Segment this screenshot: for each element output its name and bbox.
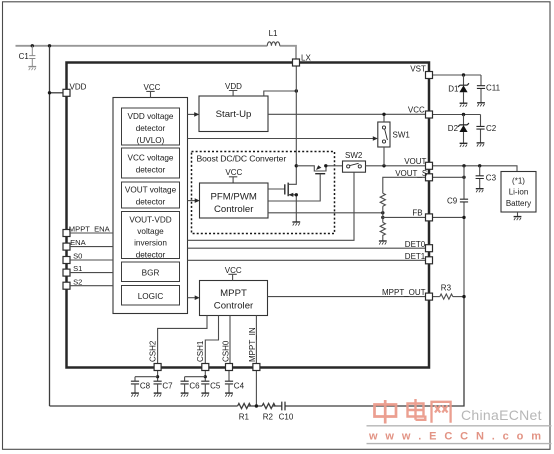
wire bottom bus mid segments <box>249 297 464 406</box>
VDD power tap (Start-Up) <box>225 82 242 96</box>
pin S1 <box>63 269 70 276</box>
inductor L1 <box>267 42 279 46</box>
svg-text:C4: C4 <box>234 382 245 391</box>
wire MPPT_IN pin down <box>255 371 257 406</box>
wire MPPT to CSH2 <box>158 316 207 364</box>
svg-text:R3: R3 <box>441 284 452 293</box>
svg-text:C1: C1 <box>19 52 30 61</box>
ground divider <box>379 241 387 245</box>
node VOUT_S right junction <box>462 176 465 179</box>
node C3 junction <box>478 164 481 167</box>
node D2 junction <box>462 113 465 116</box>
wire CSH1 pin down <box>204 371 206 382</box>
block VOUT-VDD voltage inversion detector <box>122 212 180 259</box>
ground D2 <box>460 143 468 147</box>
wire R3 to right bus <box>453 296 464 298</box>
capacitor C7 <box>154 381 162 384</box>
capacitor C6 <box>181 381 189 384</box>
wire left bus <box>49 46 51 406</box>
pin MPPT_IN <box>253 364 260 371</box>
wire VCC node <box>433 114 481 116</box>
wire right bus vertical with C9 break <box>463 166 465 297</box>
svg-text:Start-Up: Start-Up <box>216 109 252 120</box>
transistor P-ch rectifier MOSFET <box>268 165 343 201</box>
wire detector to SW1 control with arrow <box>188 138 375 140</box>
node MPPT_OUT right junction <box>462 295 465 298</box>
svg-text:S0: S0 <box>73 252 82 261</box>
svg-text:VCC: VCC <box>225 168 242 177</box>
svg-text:SW1: SW1 <box>393 131 411 140</box>
pin ENA <box>63 243 70 250</box>
switch SW1 <box>378 122 411 147</box>
wire VDD stub <box>50 92 64 94</box>
diode D1 (zener) <box>448 75 469 103</box>
node left bus junction <box>48 44 51 47</box>
svg-text:CSH2: CSH2 <box>148 340 157 362</box>
svg-text:VCC: VCC <box>408 106 425 115</box>
pin CSH0 <box>226 364 233 371</box>
ground C5 <box>201 393 209 397</box>
wire MPPT to CSH1 <box>205 316 218 364</box>
pin DET1 <box>426 257 433 264</box>
svg-text:D1: D1 <box>448 85 459 94</box>
VCC power tap (PFM/PWM) <box>225 168 242 183</box>
capacitor C5 <box>201 381 209 384</box>
wire detector to DET1 <box>188 259 426 261</box>
node C6 stub junction <box>204 375 207 378</box>
wire Start-Up top to LX net <box>264 91 297 96</box>
pin CSH1 <box>202 364 209 371</box>
wire logic to PFM/PWM with arrow <box>188 200 196 202</box>
svg-text:ChinaECNet: ChinaECNet <box>461 407 542 423</box>
block VOUT voltage detector <box>122 182 180 208</box>
svg-text:VOUT: VOUT <box>404 157 426 166</box>
transistor N-ch driver MOSFET <box>268 166 296 222</box>
svg-text:C9: C9 <box>447 197 458 206</box>
svg-text:BGR: BGR <box>142 269 160 278</box>
svg-text:MPPT_ENA: MPPT_ENA <box>69 225 111 234</box>
wire Start-Up to VCC pin <box>268 113 426 115</box>
block VDD voltage detector (UVLO) <box>122 108 180 145</box>
node NMOS drain / LX junction <box>295 164 298 167</box>
wire VOUT_S to divider <box>383 177 426 193</box>
pin FB <box>426 214 433 221</box>
node FB right junction <box>462 216 465 219</box>
VCC power tap (MPPT) <box>225 266 242 281</box>
node SW1 bottom junction <box>382 164 385 167</box>
wire MPPT to MPPT_IN <box>255 316 257 364</box>
dashed box Boost DC/DC Converter <box>192 152 335 234</box>
svg-text:w w w . E C C N . c o m: w w w . E C C N . c o m <box>368 431 543 443</box>
node FB divider junction upper <box>381 211 384 214</box>
svg-text:S2: S2 <box>73 277 82 286</box>
pin S2 <box>63 282 70 289</box>
block Start-Up <box>199 96 268 132</box>
svg-text:DET0: DET0 <box>405 240 426 249</box>
svg-text:LOGIC: LOGIC <box>138 292 164 301</box>
wire battery ground stub <box>517 212 519 216</box>
block MPPT Controler <box>200 281 268 316</box>
pin VOUT <box>426 162 433 169</box>
capacitor C8 <box>131 381 139 384</box>
node VDD stub junction <box>48 91 51 94</box>
ground C1 <box>28 67 36 71</box>
diode D2 (zener) <box>448 115 469 143</box>
block Li-ion Battery <box>501 172 536 213</box>
node D1 junction <box>462 73 465 76</box>
block VCC voltage detector <box>122 148 180 178</box>
svg-text:C7: C7 <box>162 382 173 391</box>
ground C3 <box>476 189 484 193</box>
resistor divider top <box>380 193 385 206</box>
svg-text:C11: C11 <box>486 83 501 92</box>
wire SW2 control from detector <box>188 172 355 240</box>
wire bottom bus left segment <box>50 405 238 407</box>
node C8 stub junction <box>156 375 159 378</box>
svg-text:S1: S1 <box>73 264 82 273</box>
ground C2 <box>477 143 485 147</box>
wire LX vertical <box>295 66 297 166</box>
svg-text:R2: R2 <box>263 412 274 421</box>
svg-text:VDD: VDD <box>225 82 242 91</box>
wire pin ENA to detector <box>70 246 113 248</box>
wire pin MPPT_ENA to detector <box>70 232 113 234</box>
pin MPPT_ENA <box>63 230 70 237</box>
node FB divider junction lower <box>381 216 384 219</box>
capacitor C11 <box>477 75 501 103</box>
svg-text:R1: R1 <box>239 412 250 421</box>
svg-text:VCC: VCC <box>225 266 242 275</box>
wire VOUT node to battery <box>433 166 518 172</box>
capacitor C9 <box>460 199 468 202</box>
wire VOUT_S external stub <box>433 176 465 178</box>
node Start-Up/LX junction <box>295 89 298 92</box>
wire C6 stub <box>185 377 206 382</box>
node NMOS source junction <box>295 193 298 196</box>
pin VDD <box>63 89 70 96</box>
capacitor C3 <box>476 166 497 189</box>
VCC power tap (detector container) <box>144 83 161 98</box>
node SW1 top junction <box>382 113 385 116</box>
wire L1 to LX corner <box>280 46 296 59</box>
wire SW1 top stub <box>383 114 385 122</box>
capacitor C4 <box>225 381 233 384</box>
capacitor C10 (series) <box>282 402 285 411</box>
svg-text:C3: C3 <box>486 173 497 182</box>
wire SW2 to VOUT pin <box>366 165 426 167</box>
IC box <box>67 63 430 368</box>
wire detector to Start-Up with arrow <box>188 113 196 115</box>
wire detector to DET0 <box>188 247 426 249</box>
node MPPT_IN bus junction <box>255 404 258 407</box>
wire pin S2 to detector <box>70 285 113 287</box>
pin VCC <box>426 111 433 118</box>
ground NMOS source <box>292 222 300 226</box>
ground C4 <box>225 393 233 397</box>
svg-text:C8: C8 <box>140 382 151 391</box>
pin DET0 <box>426 245 433 252</box>
node right bus top junction <box>462 164 465 167</box>
wire pin S0 to detector <box>70 259 113 261</box>
capacitor C1 <box>29 46 35 66</box>
svg-text:CSH0: CSH0 <box>221 340 230 362</box>
svg-text:C5: C5 <box>210 382 221 391</box>
switch SW2 <box>343 151 366 172</box>
ground C8 <box>131 393 139 397</box>
wire CSH2 pin down <box>157 371 159 382</box>
wire C8 stub <box>135 377 158 382</box>
svg-text:VST: VST <box>410 65 426 74</box>
svg-text:C2: C2 <box>486 124 497 133</box>
wire VST node <box>433 74 482 76</box>
svg-text:C6: C6 <box>189 382 200 391</box>
wire FB external stub <box>433 216 465 218</box>
svg-text:DET1: DET1 <box>405 252 426 261</box>
ground C11 <box>477 103 485 107</box>
resistor divider bottom <box>380 222 385 240</box>
svg-text:ENA: ENA <box>70 238 87 247</box>
detector container box <box>113 98 188 314</box>
block LOGIC <box>122 286 180 306</box>
svg-text:VOUT_S: VOUT_S <box>395 169 427 178</box>
wire SW1 bottom stub <box>383 147 385 166</box>
pin VOUT_S <box>426 174 433 181</box>
block BGR <box>122 262 180 282</box>
svg-text:MPPT_IN: MPPT_IN <box>248 327 257 362</box>
svg-text:L1: L1 <box>269 29 278 38</box>
wire divider mid <box>382 206 384 222</box>
pin CSH2 <box>154 364 161 371</box>
svg-text:VDD: VDD <box>70 82 87 91</box>
wire FB node to FB pin <box>383 216 426 218</box>
svg-text:FB: FB <box>412 209 422 218</box>
wire CSH0 pin down <box>228 371 230 382</box>
pin MPPT_OUT <box>426 293 433 300</box>
wire pin S1 to detector <box>70 272 113 274</box>
svg-text:C10: C10 <box>279 412 294 421</box>
wire top input bus <box>16 45 268 47</box>
svg-text:D2: D2 <box>448 124 459 133</box>
svg-text:CSH1: CSH1 <box>196 340 205 362</box>
wire logic to MPPT with arrow <box>188 297 196 299</box>
node C1 junction <box>31 44 34 47</box>
pin S0 <box>63 257 70 264</box>
pin LX <box>293 59 300 66</box>
svg-text:PFM/PWMControler: PFM/PWMControler <box>211 192 257 216</box>
node PMOS right junction <box>324 164 327 167</box>
resistor R1 <box>238 403 251 408</box>
wire MPPT to CSH0 <box>229 316 231 364</box>
svg-text:VCC: VCC <box>144 83 161 92</box>
resistor R2 <box>262 403 275 408</box>
wire PFM/PWM FB input <box>268 212 383 214</box>
svg-text:SW2: SW2 <box>345 151 363 160</box>
ground C6 <box>181 393 189 397</box>
resistor R3 <box>440 294 453 299</box>
wire MPPT to MPPT_OUT pin <box>268 296 426 298</box>
ground battery <box>514 217 522 221</box>
block PFM/PWM Controler <box>200 183 269 218</box>
ground C7 <box>154 393 162 397</box>
capacitor C2 <box>476 115 496 143</box>
svg-text:Boost DC/DC Converter: Boost DC/DC Converter <box>197 153 287 163</box>
svg-text:LX: LX <box>301 54 311 63</box>
pin VST <box>426 72 433 79</box>
svg-text:MPPT_OUT: MPPT_OUT <box>382 288 426 297</box>
ground D1 <box>460 103 468 107</box>
wire MPPT_OUT to R3 <box>433 296 440 298</box>
